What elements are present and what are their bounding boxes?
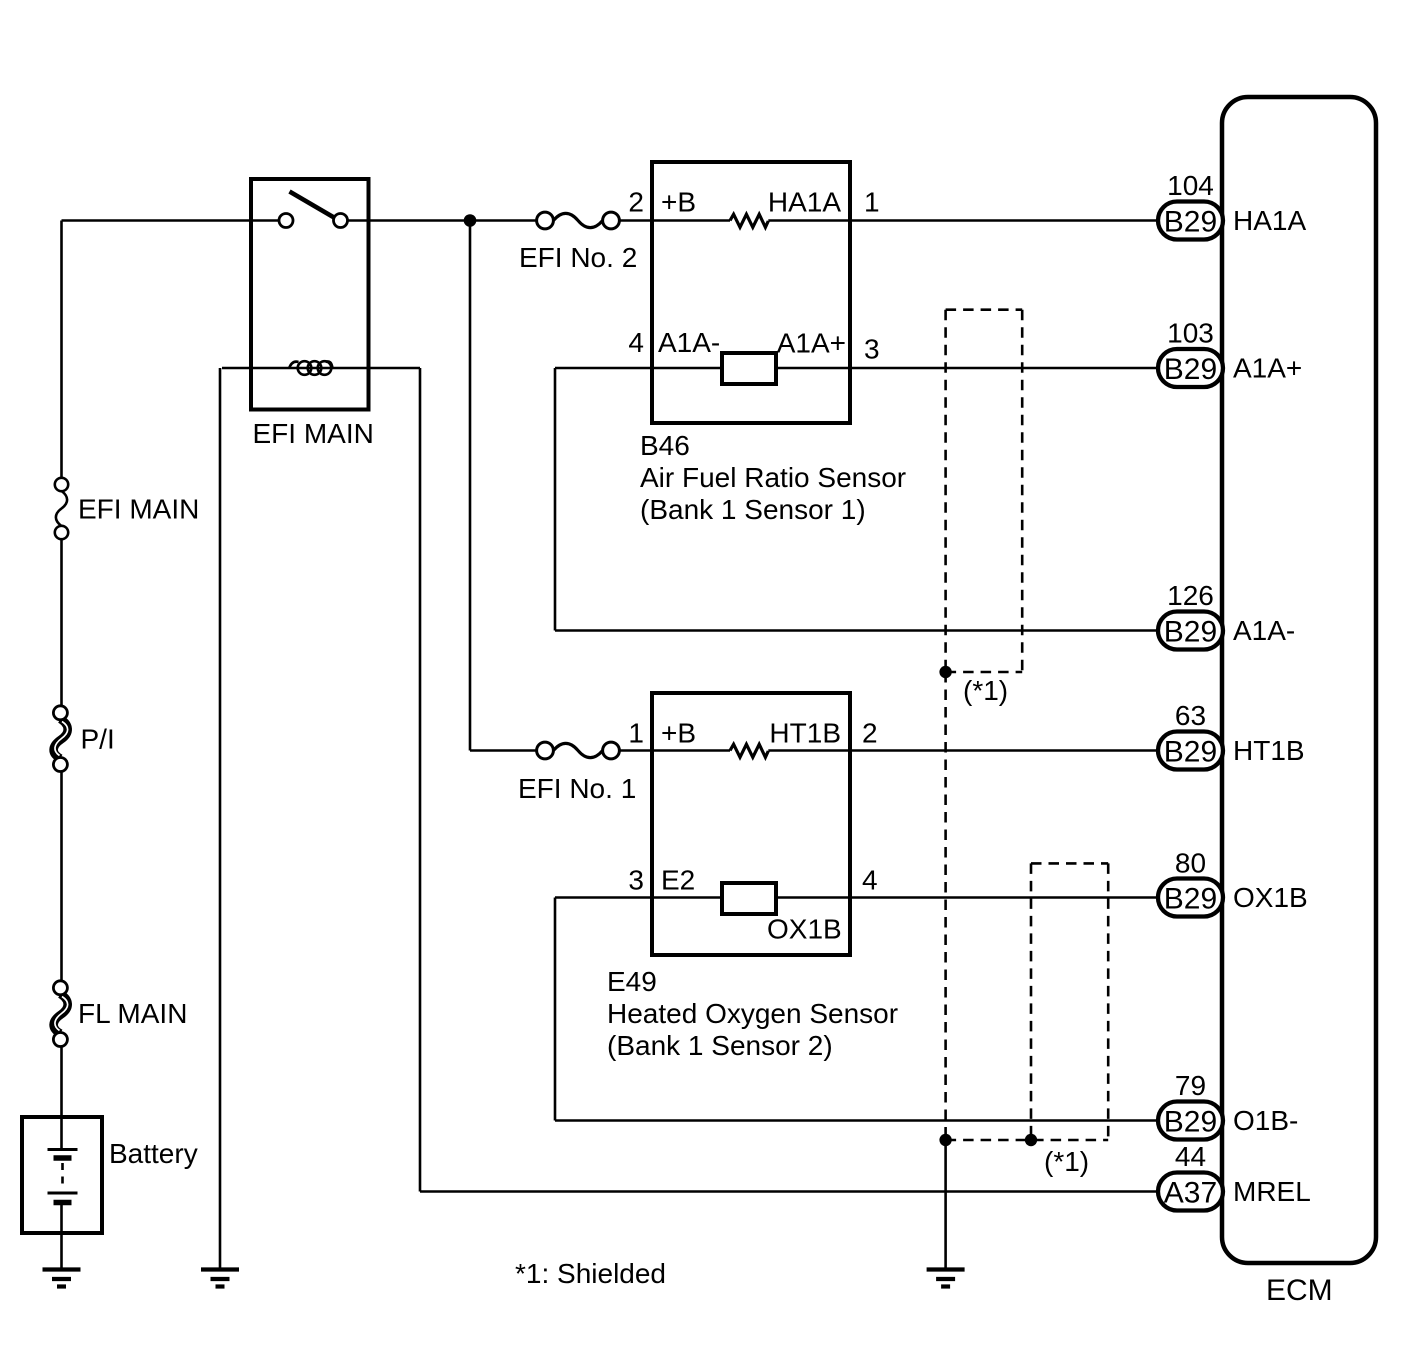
svg-text:+B: +B [661, 187, 696, 218]
svg-text:A1A+: A1A+ [1233, 353, 1302, 384]
node dot shield drain [939, 1134, 951, 1146]
wire A1A row from x555 [555, 367, 1158, 370]
svg-text:*1: Shielded: *1: Shielded [515, 1258, 666, 1289]
svg-text:79: 79 [1175, 1070, 1206, 1101]
ground battery [43, 1270, 81, 1287]
sensor element OX1B [722, 883, 776, 914]
svg-text:EFI No. 2: EFI No. 2 [519, 242, 637, 273]
node dot shield 2 [1025, 1134, 1037, 1146]
wire vertical x555 upper [554, 368, 557, 631]
svg-text:HA1A: HA1A [768, 187, 841, 218]
wire B46 heater row inside [652, 219, 730, 222]
svg-text:B46: B46 [640, 430, 690, 461]
svg-text:ECM: ECM [1266, 1274, 1333, 1307]
connector oval B29 pin104 [1158, 202, 1223, 240]
svg-text:A1A-: A1A- [658, 327, 720, 358]
node junction dot row1 [464, 214, 477, 227]
wire A1A- row [555, 629, 1158, 632]
svg-text:E2: E2 [661, 865, 695, 896]
svg-text:B29: B29 [1164, 883, 1217, 916]
wire vertical x470 to EFI No.1 [469, 221, 472, 751]
svg-text:Heated Oxygen Sensor: Heated Oxygen Sensor [607, 998, 898, 1029]
battery [22, 1117, 102, 1269]
svg-text:1: 1 [628, 718, 644, 749]
svg-text:B29: B29 [1164, 616, 1217, 649]
node dot shield 1 [939, 666, 951, 678]
wire left bus segment to battery [60, 1046, 63, 1150]
svg-text:O1B-: O1B- [1233, 1105, 1298, 1136]
fuse EFI MAIN [55, 478, 68, 539]
svg-text:EFI No. 1: EFI No. 1 [518, 773, 636, 804]
svg-text:Battery: Battery [109, 1138, 198, 1169]
wire E49 heater row inside [652, 749, 730, 752]
svg-text:+B: +B [661, 718, 696, 749]
svg-text:Air Fuel Ratio Sensor: Air Fuel Ratio Sensor [640, 462, 906, 493]
connector oval B29 pin103 [1158, 349, 1223, 387]
svg-text:P/I: P/I [81, 724, 115, 755]
svg-text:B29: B29 [1164, 736, 1217, 769]
svg-text:B29: B29 [1164, 206, 1217, 239]
shield dashed box 2 [946, 863, 1109, 1140]
svg-text:E49: E49 [607, 966, 657, 997]
svg-text:4: 4 [862, 865, 878, 896]
wire fuse to B46 [619, 219, 652, 222]
svg-text:2: 2 [862, 718, 878, 749]
svg-text:3: 3 [628, 865, 644, 896]
wire relay coil row y368 [222, 367, 420, 370]
connector oval B29 pin79 [1158, 1102, 1223, 1140]
svg-text:(Bank 1 Sensor 1): (Bank 1 Sensor 1) [640, 494, 866, 525]
relay switch contact left [279, 214, 293, 228]
wire vertical x420 to MREL row [419, 368, 422, 1192]
wire MREL row [420, 1190, 1158, 1193]
svg-text:A37: A37 [1164, 1177, 1217, 1210]
svg-text:B29: B29 [1164, 353, 1217, 386]
wire shield drain to ground [944, 1140, 947, 1269]
ground shield [927, 1270, 965, 1287]
wire relay to junction and fuse [348, 219, 537, 222]
svg-text:EFI MAIN: EFI MAIN [78, 494, 199, 525]
svg-text:44: 44 [1175, 1141, 1206, 1172]
connector oval B29 pin63 [1158, 732, 1223, 770]
svg-text:B29: B29 [1164, 1106, 1217, 1139]
shield dashed box 1 [946, 310, 1023, 672]
relay coil [289, 361, 333, 375]
svg-text:OX1B: OX1B [767, 914, 842, 945]
svg-text:126: 126 [1167, 580, 1214, 611]
svg-text:4: 4 [628, 327, 644, 358]
svg-text:OX1B: OX1B [1233, 882, 1308, 913]
svg-text:63: 63 [1175, 700, 1206, 731]
fuse EFI No. 2 [537, 212, 620, 229]
svg-text:(Bank 1 Sensor 2): (Bank 1 Sensor 2) [607, 1030, 833, 1061]
svg-text:(*1): (*1) [963, 675, 1008, 706]
sensor element A1A [722, 353, 776, 384]
relay EFI MAIN box [251, 179, 369, 410]
wire left bus top segment [60, 221, 63, 479]
connector oval B29 pin126 [1158, 612, 1223, 650]
svg-text:A1A-: A1A- [1233, 615, 1295, 646]
wire vertical x555 lower [554, 898, 557, 1121]
wire OX1B row [555, 896, 1158, 899]
fusible link P/I [53, 706, 67, 772]
wire HA1A to ECM oval [768, 219, 1158, 222]
wire HT1B to ECM oval [768, 749, 1158, 752]
ECM box [1222, 97, 1376, 1263]
B46 sensor box [652, 162, 850, 423]
svg-text:MREL: MREL [1233, 1176, 1311, 1207]
svg-text:HT1B: HT1B [1233, 735, 1305, 766]
wire vertical x222 to ground [219, 368, 222, 1269]
svg-text:80: 80 [1175, 848, 1206, 879]
svg-text:EFI MAIN: EFI MAIN [253, 418, 374, 449]
wire row1 bus to relay [62, 219, 280, 222]
svg-text:103: 103 [1167, 318, 1214, 349]
svg-text:HA1A: HA1A [1233, 205, 1306, 236]
wire left bus segment 3 [60, 772, 63, 981]
fusible link FL MAIN [53, 981, 67, 1047]
connector oval A37 pin44 [1158, 1173, 1223, 1211]
resistor HT1B heater [730, 744, 768, 757]
relay switch contact right [334, 214, 348, 228]
svg-text:HT1B: HT1B [769, 718, 841, 749]
connector oval B29 pin80 [1158, 879, 1223, 917]
E49 sensor box [652, 693, 850, 955]
svg-text:(*1): (*1) [1044, 1146, 1089, 1177]
svg-text:2: 2 [628, 187, 644, 218]
svg-text:FL MAIN: FL MAIN [78, 998, 187, 1029]
svg-text:A1A+: A1A+ [777, 328, 846, 359]
fuse EFI No. 1 [470, 742, 652, 759]
wire left bus mid segment [60, 539, 63, 706]
svg-text:104: 104 [1167, 170, 1214, 201]
svg-text:1: 1 [864, 187, 880, 218]
resistor HA1A heater [730, 214, 768, 227]
relay switch blade [290, 192, 335, 218]
ground x220 [201, 1270, 239, 1287]
shield drain dashed vertical [944, 672, 947, 1140]
svg-text:3: 3 [864, 334, 880, 365]
wire O1B- row [555, 1119, 1158, 1122]
